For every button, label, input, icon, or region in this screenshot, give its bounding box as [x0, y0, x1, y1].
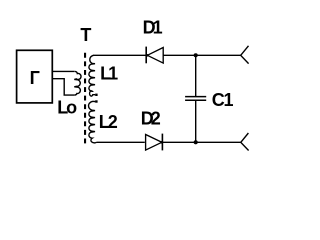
- svg-text:D2: D2: [141, 109, 161, 129]
- wire generator bottom to primary: [52, 79, 74, 95]
- secondary winding L2: [89, 101, 97, 142]
- transformer core (dashed): [84, 53, 86, 144]
- secondary winding L1: [89, 55, 95, 96]
- diode D2 triangle: [146, 135, 162, 151]
- svg-text:L1: L1: [100, 63, 118, 83]
- wire D1 to top junction and terminal: [163, 54, 241, 56]
- output terminal top: [241, 46, 249, 64]
- wire C1 down to bottom junction: [195, 100, 197, 142]
- wire generator top to primary: [52, 70, 74, 72]
- wire L1 to D1: [93, 54, 146, 56]
- wire D2 to bottom junction and terminal: [162, 141, 240, 143]
- node top junction: [194, 53, 198, 57]
- wire L2 to D2: [97, 141, 145, 143]
- svg-text:D1: D1: [143, 17, 163, 37]
- svg-text:C1: C1: [212, 90, 234, 110]
- transformer primary winding Lo: [74, 71, 81, 95]
- svg-text:Lo: Lo: [57, 97, 77, 117]
- D2 apex junction blob: [160, 141, 163, 144]
- svg-text:L2: L2: [99, 112, 118, 132]
- L1 end dot: [95, 94, 97, 96]
- output terminal bottom: [241, 133, 249, 151]
- D1 apex junction blob: [146, 54, 149, 57]
- wire top junction down to C1: [195, 55, 197, 96]
- L2 start dot: [95, 100, 97, 102]
- diode D1 triangle: [147, 48, 163, 64]
- svg-text:Г: Г: [30, 68, 40, 88]
- svg-text:T: T: [80, 25, 91, 45]
- capacitor C1 plates: [185, 97, 206, 101]
- diode D1 cathode bar: [145, 47, 147, 64]
- diode D2 cathode bar: [161, 134, 163, 151]
- generator G box: [17, 50, 53, 103]
- node bottom junction: [194, 140, 198, 144]
